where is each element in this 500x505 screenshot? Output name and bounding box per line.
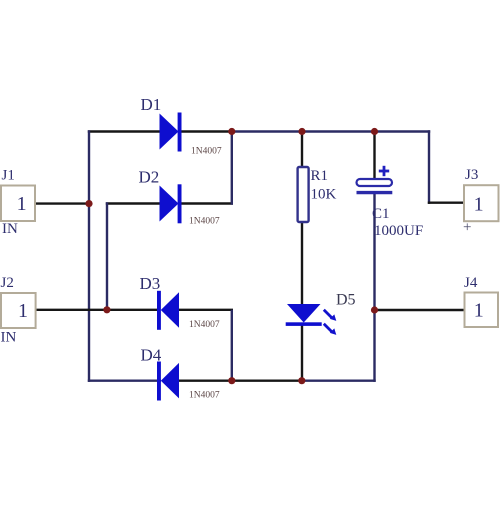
svg-text:D2: D2 bbox=[139, 168, 160, 187]
wire: C1 bottom vertical through J4 junction bbox=[373, 193, 375, 382]
diode D1 bbox=[160, 113, 182, 152]
LED D5 bbox=[286, 304, 337, 335]
wire: R1 top stub bbox=[301, 130, 303, 168]
svg-text:1N4007: 1N4007 bbox=[189, 217, 220, 227]
connector J1 bbox=[1, 186, 35, 222]
wire: J4 stub bbox=[375, 309, 466, 311]
connector J3 bbox=[464, 185, 499, 221]
wire: D2 cathode row bbox=[179, 202, 233, 204]
svg-text:D4: D4 bbox=[141, 346, 162, 365]
connector J4 bbox=[465, 293, 499, 328]
wire: C1 top stub bbox=[373, 130, 375, 180]
svg-text:1: 1 bbox=[474, 193, 484, 215]
wire: right elbow down to J3 bbox=[428, 130, 430, 204]
junction dot V+ / D2 bbox=[228, 128, 235, 135]
wire: D2 anode row bbox=[106, 202, 161, 204]
connector J2 bbox=[1, 293, 36, 328]
diode D3 bbox=[157, 291, 179, 330]
svg-text:IN: IN bbox=[2, 221, 18, 237]
svg-text:J1: J1 bbox=[2, 168, 15, 184]
svg-text:C1: C1 bbox=[372, 206, 390, 222]
wire: V- bottom rail left part bbox=[179, 380, 302, 382]
wire: LED cathode down to V- rail bbox=[301, 326, 303, 382]
junction dot node B / J2 bbox=[103, 306, 110, 313]
diode D2 bbox=[160, 184, 182, 223]
svg-text:J2: J2 bbox=[1, 275, 14, 291]
wire: vertical node A (J1 net) bbox=[88, 130, 90, 382]
svg-text:+: + bbox=[463, 220, 471, 236]
wire: D4 cathode row from node A bbox=[88, 380, 161, 382]
svg-text:R1: R1 bbox=[311, 168, 329, 184]
junction dot J4 / C1 net bbox=[371, 306, 378, 313]
wire: vertical node B (J2 net, D2 anode down) bbox=[106, 202, 108, 311]
svg-text:1N4007: 1N4007 bbox=[191, 147, 222, 157]
wire: vertical D2 cathode up to V+ rail bbox=[231, 132, 233, 205]
svg-text:D5: D5 bbox=[336, 292, 356, 309]
svg-text:J4: J4 bbox=[464, 275, 478, 291]
svg-text:J3: J3 bbox=[465, 167, 478, 183]
junction dot V- / D3 bbox=[228, 377, 235, 384]
junction dot V+ / R1 bbox=[298, 128, 305, 135]
wire: J3 stub bbox=[428, 201, 465, 203]
junction dot V+ / C1 bbox=[371, 128, 378, 135]
wire: D1 cathode to V+ junction bbox=[179, 130, 233, 132]
svg-text:1N4007: 1N4007 bbox=[189, 320, 220, 330]
wire: V- bottom rail right part bbox=[301, 380, 376, 382]
svg-text:1: 1 bbox=[17, 193, 27, 215]
diode D4 bbox=[157, 362, 179, 401]
svg-text:IN: IN bbox=[1, 330, 17, 346]
svg-text:D1: D1 bbox=[141, 95, 162, 114]
wire: V+ top rail bbox=[231, 130, 430, 132]
svg-text:1000UF: 1000UF bbox=[374, 223, 423, 239]
svg-text:1N4007: 1N4007 bbox=[189, 391, 220, 401]
svg-text:1: 1 bbox=[18, 300, 28, 322]
resistor R1 bbox=[298, 167, 309, 222]
svg-text:10K: 10K bbox=[311, 187, 337, 203]
wire: J2 row to D3 cathode bbox=[34, 309, 159, 311]
svg-text:1: 1 bbox=[474, 299, 484, 321]
svg-text:D3: D3 bbox=[140, 274, 161, 293]
wire: vertical D3 anode down to V- rail bbox=[231, 310, 233, 382]
wire: D3 anode row bbox=[178, 309, 233, 311]
wire: J1 stub to node A bbox=[34, 202, 90, 204]
junction dot V- / LED bbox=[298, 377, 305, 384]
wire: D1 anode row bbox=[88, 130, 161, 132]
capacitor C1 bbox=[357, 166, 393, 193]
wire: R1 bottom to LED top bbox=[301, 222, 303, 306]
junction dot node A / J1 bbox=[85, 200, 92, 207]
